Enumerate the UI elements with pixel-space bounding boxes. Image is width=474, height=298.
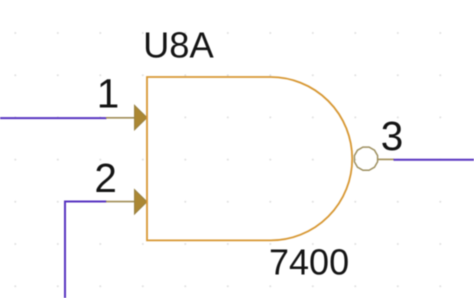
wire: input net 2 [65,202,107,298]
wire: input net 1 [0,117,107,119]
svg-text:U8A: U8A [143,25,214,66]
pin 3 stub [378,158,394,160]
pin 1 input triangle [135,105,148,130]
NAND gate U8A body [147,77,352,240]
output inversion bubble [354,147,377,170]
pin 2 input triangle [135,190,148,215]
svg-text:2: 2 [94,155,117,201]
svg-text:3: 3 [381,113,404,159]
svg-text:1: 1 [97,70,120,116]
wire: output net [394,159,474,161]
pin 1 stub [106,117,146,119]
pin 2 stub [106,201,146,203]
svg-text:7400: 7400 [269,242,349,283]
